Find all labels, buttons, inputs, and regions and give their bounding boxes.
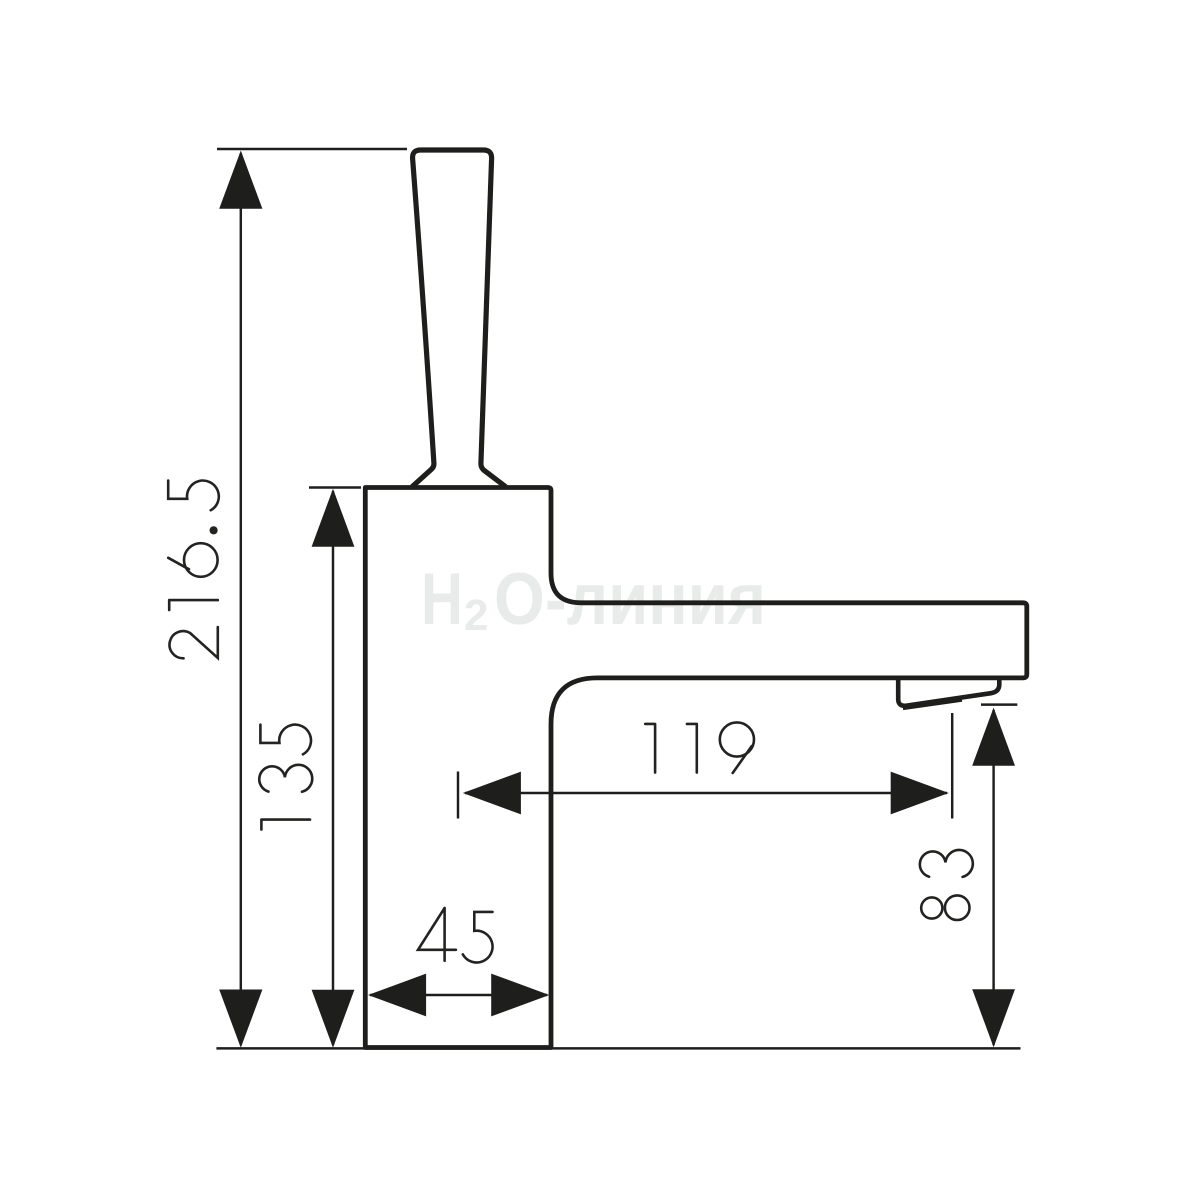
extension line at spout tip <box>951 713 953 819</box>
extension tick at faucet axis <box>457 772 459 819</box>
value label 216.5 (rotated) <box>168 481 219 659</box>
dimension line 119 (spout reach) <box>465 792 947 794</box>
arrowhead left, 45 <box>368 974 426 1017</box>
arrowhead right, 45 <box>491 974 549 1017</box>
arrowhead left, 119 <box>463 772 521 815</box>
aerator nozzle <box>898 679 999 706</box>
extension line at body top level <box>309 486 361 488</box>
baseline (ground line) <box>216 1047 1020 1050</box>
dimension line 135 (body height) <box>332 491 334 1045</box>
dimension line 83 (spout height) <box>992 710 994 1045</box>
arrowhead right, 119 <box>891 772 949 815</box>
svg-text:2: 2 <box>464 591 488 640</box>
svg-text:H: H <box>421 559 463 640</box>
faucet body and spout outline <box>365 488 1027 1048</box>
arrowhead down, 216.5 bottom <box>219 990 262 1048</box>
dimension line 216.5 (overall height) <box>240 153 242 1045</box>
watermark H2O-линия <box>421 559 766 640</box>
aerator lower rim <box>903 700 962 708</box>
arrowhead down, 135 bottom <box>312 990 355 1048</box>
arrowhead up, 216.5 top <box>219 151 262 209</box>
arrowhead up, 135 top <box>312 489 355 547</box>
dimension line 45 (body width) <box>370 994 547 996</box>
value label 45 <box>418 908 493 963</box>
handle lever <box>412 150 506 487</box>
svg-text:O-линия: O-линия <box>494 559 766 640</box>
value label 135 (rotated) <box>259 725 312 830</box>
extension line at aerator level <box>981 703 1017 705</box>
value label 83 (rotated) <box>920 850 973 920</box>
extension line at handle top level <box>217 148 407 150</box>
arrowhead up, 83 top <box>972 708 1015 766</box>
value label 119 <box>645 722 754 773</box>
arrowhead down, 83 bottom <box>972 989 1015 1047</box>
